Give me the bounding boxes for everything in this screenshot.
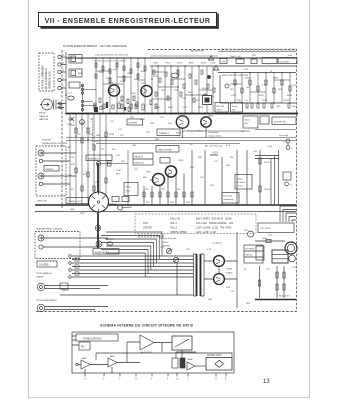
svg-text:PEDA 10: PEDA 10	[135, 156, 144, 159]
svg-text:8R3V: 8R3V	[287, 95, 293, 97]
svg-text:TR03: TR03	[176, 133, 182, 135]
svg-text:KK2P: KK2P	[284, 100, 290, 102]
dashed left border	[61, 50, 63, 208]
svg-text:Décharge: Décharge	[224, 196, 234, 198]
svg-text:P108: P108	[198, 107, 204, 109]
svg-text:TK73: TK73	[210, 63, 216, 65]
dark part above bus	[94, 107, 98, 112]
svg-text:2105: 2105	[167, 98, 172, 100]
svg-text:R84: R84	[128, 207, 133, 209]
wires under TR06	[183, 126, 207, 137]
svg-text:FP3: FP3	[244, 230, 249, 232]
svg-text:PLAY: PLAY	[116, 169, 122, 172]
svg-text:C+: C+	[246, 100, 249, 102]
svg-text:Vers ampli: Vers ampli	[279, 134, 288, 137]
svg-text:L23Y~L23HB (L23) TP0~TP02: L23Y~L23HB (L23) TP0~TP02	[196, 227, 232, 230]
connector circles column	[58, 55, 61, 58]
svg-text:ERA: ERA	[78, 72, 83, 75]
heavy horizontal bus	[66, 113, 298, 115]
svg-text:IP3: IP3	[81, 347, 85, 349]
clavier mecanique dashed box	[39, 53, 54, 91]
addition amp	[140, 335, 154, 350]
svg-text:TIMBRE 2: TIMBRE 2	[159, 133, 170, 135]
parts inside right frame	[225, 84, 229, 88]
svg-text:ADDITION: ADDITION	[141, 351, 152, 354]
svg-text:4: 4	[63, 78, 65, 80]
svg-text:10µF C+ (4): 10µF C+ (4)	[230, 56, 241, 58]
filtre FM 19kHz box	[215, 103, 229, 113]
transistor TR908	[214, 256, 225, 267]
svg-text:56k: 56k	[230, 157, 234, 159]
bus terminal circle	[96, 161, 100, 165]
amp1 wires	[78, 365, 108, 374]
svg-text:+12 V: +12 V	[212, 153, 219, 155]
svg-text:REGL.: REGL.	[163, 242, 169, 244]
enreg aux label box	[93, 249, 119, 255]
svg-text:C37: C37	[146, 132, 151, 134]
small box on head wire	[60, 283, 68, 289]
svg-text:C10 R11 C12 R13 C14 R15 C16: C10 R11 C12 R13 C14 R15 C16 R17	[93, 61, 127, 63]
IP3 box	[79, 342, 90, 350]
svg-text:R77: R77	[266, 269, 271, 271]
svg-text:1k: 1k	[244, 269, 247, 271]
svg-text:R5µ: R5µ	[186, 202, 191, 204]
enreg lect label box	[66, 198, 92, 204]
svg-text:C+0.5: C+0.5	[67, 93, 72, 95]
azimut trimmers	[166, 248, 171, 253]
svg-text:22P: 22P	[145, 189, 149, 191]
regulator table	[272, 250, 288, 263]
svg-text:R44: R44	[132, 145, 137, 147]
dark module block	[203, 96, 212, 105]
svg-text:C302: C302	[79, 123, 85, 125]
casque wires	[43, 238, 108, 247]
svg-text:TR06: TR06	[208, 116, 214, 118]
svg-text:SW: SW	[222, 61, 225, 63]
svg-text:R81: R81	[246, 303, 251, 305]
output terminals O L	[286, 139, 290, 143]
svg-text:836K: 836K	[189, 63, 194, 65]
transistor TR06	[201, 117, 211, 127]
svg-text:425C: 425C	[161, 90, 166, 92]
svg-text:6038: 6038	[141, 71, 146, 73]
effacement wires	[45, 307, 108, 310]
IC outer box	[72, 332, 234, 373]
svg-text:L20Y~L24B (L20): L20Y~L24B (L20)	[196, 231, 216, 234]
svg-text:9: 9	[167, 379, 169, 381]
svg-text:SHL-1: SHL-1	[170, 222, 177, 225]
cap oval	[68, 96, 74, 100]
svg-text:PLATINE PRISE CASQUE: PLATINE PRISE CASQUE	[36, 228, 63, 231]
dashed platine border top/right/bottom	[35, 50, 297, 312]
warning triangle A	[209, 56, 214, 60]
svg-text:DU CLAVIER MECA: DU CLAVIER MECA	[45, 68, 48, 89]
svg-text:R98 9k: R98 9k	[264, 189, 270, 191]
svg-text:STABILISATION: STABILISATION	[83, 337, 101, 340]
junction dots on left bus	[65, 94, 67, 96]
tete lamelle head symbol	[37, 283, 45, 291]
detection wires	[96, 353, 232, 360]
svg-text:R121: R121	[131, 93, 137, 95]
svg-text:6: 6	[187, 379, 189, 381]
mini box beside regul	[160, 158, 170, 164]
meter box	[172, 336, 192, 350]
svg-text:Réglage 6V: Réglage 6V	[279, 296, 290, 298]
svg-text:C115: C115	[119, 101, 125, 103]
mid-left wiring verticals	[69, 114, 71, 206]
svg-text:DETECTION: DETECTION	[207, 354, 222, 357]
svg-text:R318: R318	[109, 134, 115, 136]
svg-text:RWD 479: RWD 479	[105, 239, 113, 241]
svg-text:R33: R33	[150, 123, 155, 125]
svg-text:AV Switch: AV Switch	[237, 181, 246, 184]
svg-text:3: 3	[151, 379, 153, 381]
circuit reglage box	[262, 58, 277, 64]
amp2 wires	[112, 342, 140, 373]
timbre filtre box	[156, 146, 179, 153]
relay ERA-1	[69, 55, 82, 64]
left end part marks on return wires	[75, 258, 79, 261]
resistor ladder top-left	[95, 58, 97, 113]
svg-text:5: 5	[63, 86, 65, 88]
svg-text:PRISES: PRISES	[46, 169, 54, 171]
svg-text:1V02: 1V02	[127, 73, 133, 75]
wire fan bundle	[106, 232, 162, 256]
svg-text:93K0: 93K0	[99, 72, 105, 74]
svg-text:R79: R79	[268, 235, 273, 237]
transistor TR02	[141, 85, 152, 96]
svg-text:02R: 02R	[95, 141, 99, 143]
svg-text:KP14: KP14	[201, 63, 207, 65]
jack mark under commutator	[95, 225, 101, 231]
svg-text:812µ: 812µ	[202, 88, 207, 90]
capstan circle	[289, 255, 296, 262]
svg-text:C53: C53	[134, 169, 139, 171]
svg-text:MOTEUR: MOTEUR	[246, 249, 255, 251]
svg-text:TP0~TP02: TP0~TP02	[260, 228, 271, 230]
motor M	[285, 242, 297, 254]
svg-text:120: 120	[210, 185, 214, 187]
svg-text:PLATINE ENREGISTREMENT - LECTU: PLATINE ENREGISTREMENT - LECTURE COMMAND…	[63, 45, 127, 48]
svg-text:9k/y: 9k/y	[232, 110, 236, 112]
svg-text:297: 297	[146, 202, 150, 204]
label box SERR AUX 1	[86, 155, 112, 161]
svg-text:V7VC: V7VC	[231, 95, 237, 97]
svg-text:12: 12	[84, 379, 87, 381]
svg-text:GAUCHE: GAUCHE	[39, 118, 49, 121]
svg-text:5: 5	[103, 379, 105, 381]
junction dots on heavy bus	[95, 113, 97, 115]
svg-text:C49: C49	[253, 151, 258, 153]
top rail wires	[66, 57, 296, 59]
misc label speckle	[68, 55, 297, 305]
motor table box	[244, 245, 263, 263]
base rail TR03-TR06	[182, 130, 250, 132]
svg-text:SW1: SW1	[70, 209, 75, 211]
svg-text:12C0: 12C0	[106, 78, 112, 80]
svg-text:rotation moteur: rotation moteur	[208, 135, 222, 138]
svg-text:T8KC: T8KC	[153, 63, 159, 65]
svg-text:PLATINE: PLATINE	[42, 139, 51, 142]
svg-text:GRAVE: GRAVE	[36, 275, 44, 278]
svg-text:TC86: TC86	[181, 98, 187, 100]
svg-text:VII - ENSEMBLE ENREGISTREUR-LE: VII - ENSEMBLE ENREGISTREUR-LECTEUR	[45, 18, 211, 25]
box K3	[69, 82, 80, 88]
dashed vertical mid-left	[92, 118, 94, 146]
svg-text:C35: C35	[160, 117, 165, 119]
casque jack	[38, 235, 44, 241]
svg-text:68k: 68k	[143, 177, 147, 179]
long return wires to oscillator	[72, 255, 194, 257]
svg-text:µP9T: µP9T	[195, 100, 201, 102]
svg-text:AMP: AMP	[82, 357, 87, 360]
svg-text:R15: R15	[71, 164, 76, 166]
svg-text:RTC4: RTC4	[165, 63, 171, 65]
title box VII ENSEMBLE	[39, 13, 219, 28]
long horizontals under bus	[66, 138, 296, 144]
svg-text:R61: R61	[230, 89, 235, 91]
svg-text:4.7µ: 4.7µ	[226, 145, 231, 147]
svg-text:TR02: TR02	[141, 83, 147, 85]
svg-text:0.22: 0.22	[207, 249, 212, 251]
svg-text:C60: C60	[288, 55, 293, 57]
prises wires	[43, 153, 76, 184]
left vertical near motor	[259, 266, 261, 298]
svg-text:RP47: RP47	[273, 78, 279, 80]
svg-text:C107 10µ 25V R115 2.2k C1: C107 10µ 25V R115 2.2k C112 0.047	[95, 55, 129, 57]
nested corner wires right	[280, 206, 296, 222]
svg-text:TR908: TR908	[226, 269, 233, 271]
svg-text:99CP: 99CP	[168, 107, 174, 109]
svg-text:CASQUE: CASQUE	[39, 115, 49, 118]
svg-text:PV9T: PV9T	[174, 90, 180, 92]
svg-text:CRB05~CPB02: CRB05~CPB02	[170, 231, 187, 234]
svg-text:ENREG AUX 1: ENREG AUX 1	[95, 251, 110, 254]
svg-text:R50: R50	[241, 131, 246, 133]
svg-text:TPP: TPP	[161, 189, 166, 191]
rail under filtre sec	[255, 129, 296, 131]
svg-text:O: O	[283, 142, 285, 144]
svg-text:C64: C64	[292, 85, 297, 87]
svg-text:REG/OSC: REG/OSC	[135, 163, 145, 165]
label box BUFFER AUX	[127, 119, 143, 125]
svg-text:C78: C78	[292, 267, 297, 269]
svg-text:33k: 33k	[112, 149, 116, 151]
thick vertical bus to heads	[97, 163, 99, 248]
transistor TR01	[108, 85, 119, 96]
bottom pins	[85, 373, 226, 377]
svg-text:Couvert Transistor: Couvert Transistor	[160, 237, 177, 240]
svg-text:rebobinage: rebobinage	[224, 199, 235, 201]
small box beside switch	[260, 116, 269, 124]
svg-text:REC: REC	[116, 174, 121, 176]
svg-text:Neon: Neon	[126, 191, 131, 193]
filtre sec box	[272, 117, 296, 125]
svg-text:C307: C307	[276, 106, 281, 108]
middle top component cluster	[151, 66, 153, 113]
svg-text:R46: R46	[198, 157, 203, 159]
transistor TR909	[214, 274, 225, 285]
svg-text:Regul: Regul	[232, 106, 238, 108]
svg-text:3: 3	[63, 70, 65, 72]
right bottom small parts row	[246, 103, 248, 108]
svg-text:PRISES MICROPHONES: PRISES MICROPHONES	[42, 143, 68, 145]
svg-text:P4µ: P4µ	[170, 202, 175, 204]
left pins	[72, 336, 79, 345]
svg-text:SERR AUX 1: SERR AUX 1	[88, 157, 102, 160]
secondary mid rail	[35, 211, 297, 213]
svg-text:REGUL: REGUL	[246, 255, 254, 257]
svg-text:C55: C55	[200, 177, 205, 179]
effacement head symbol	[37, 304, 45, 312]
svg-text:Filtre FM: Filtre FM	[217, 105, 225, 108]
svg-text:µ501: µ501	[113, 69, 119, 71]
svg-text:TAB GAUCHE: TAB GAUCHE	[190, 50, 205, 53]
svg-text:12: 12	[176, 379, 179, 381]
svg-text:TETE EFFACEMENT: TETE EFFACEMENT	[36, 299, 58, 302]
addition wires	[127, 342, 172, 352]
small box O C	[283, 172, 291, 180]
small terminal circle right of commutator	[118, 205, 123, 210]
svg-text:AVL OR TON rouge: AVL OR TON rouge	[205, 145, 223, 148]
svg-text:TIMB. FILTRE: TIMB. FILTRE	[158, 150, 172, 152]
svg-text:Oscillateur: Oscillateur	[212, 242, 223, 245]
jack 1	[38, 150, 44, 156]
svg-text:C93µ: C93µ	[236, 100, 242, 102]
svg-text:813: 813	[177, 189, 181, 191]
svg-text:MICRO: MICRO	[39, 113, 47, 115]
tick texture on top dashed border	[222, 48, 294, 51]
svg-text:TR05: TR05	[146, 172, 152, 174]
heavy mid rail	[35, 204, 297, 206]
svg-text:13: 13	[263, 379, 270, 385]
svg-text:ASS: ASS	[143, 222, 148, 225]
svg-text:R74: R74	[226, 287, 231, 289]
left end terminals of return wires	[69, 255, 72, 258]
second top rail right	[218, 51, 296, 53]
svg-text:R59: R59	[252, 55, 257, 57]
comb ticks under legend	[139, 235, 163, 238]
svg-text:2: 2	[63, 62, 65, 64]
resistor bank under transistors	[143, 186, 145, 205]
rotary commutator circle	[89, 192, 109, 212]
head wires	[45, 286, 108, 289]
svg-text:V328: V328	[153, 76, 159, 78]
micro casque jack	[42, 99, 53, 110]
transistor TR05	[153, 174, 165, 186]
svg-text:1: 1	[63, 55, 65, 57]
svg-text:15T: 15T	[77, 134, 81, 136]
svg-text:R301: R301	[68, 119, 74, 121]
right frame wire	[220, 75, 296, 103]
svg-text:TR04: TR04	[178, 160, 184, 162]
svg-text:B20Y~(REF) R20~R276 2E30k: B20Y~(REF) R20~R276 2E30k	[196, 218, 233, 221]
svg-text:ERA: ERA	[78, 57, 83, 60]
svg-text:AMP: AMP	[188, 358, 193, 361]
svg-text:VERS CDE: VERS CDE	[37, 201, 47, 203]
svg-text:K631: K631	[245, 78, 251, 80]
heavy bottom-right bus	[255, 299, 296, 301]
svg-text:CASQUE: CASQUE	[39, 264, 49, 267]
transformer T901	[196, 254, 198, 296]
svg-text:8: 8	[225, 379, 227, 381]
svg-text:VERROUILLAGE: VERROUILLAGE	[49, 71, 52, 89]
svg-text:Pleura: Pleura	[126, 187, 133, 189]
svg-text:R30: R30	[292, 106, 295, 108]
prises dashed box	[36, 146, 66, 196]
casque label box	[37, 261, 57, 267]
svg-text:0.01: 0.01	[268, 146, 273, 148]
right bottom RC pairs	[277, 266, 284, 298]
svg-text:0.047: 0.047	[140, 119, 146, 121]
coupling parts between TR01/TR02	[121, 96, 123, 101]
coupling cluster	[172, 358, 178, 368]
prises label box	[44, 166, 59, 172]
svg-text:TR01: TR01	[108, 83, 114, 85]
svg-text:C80: C80	[208, 299, 213, 301]
svg-text:Switch: Switch	[245, 119, 251, 122]
svg-text:AV: AV	[68, 146, 71, 149]
svg-text:4.7k: 4.7k	[118, 129, 123, 131]
svg-text:220: 220	[120, 135, 124, 137]
left bus wire	[65, 52, 67, 113]
svg-text:Grand Rég: Grand Rég	[279, 61, 289, 63]
svg-text:C: C	[290, 185, 292, 187]
svg-text:VV16: VV16	[120, 81, 126, 83]
svg-text:FILTRE SEC: FILTRE SEC	[274, 121, 287, 123]
casque dashed box	[35, 232, 80, 259]
svg-text:SW-1n: SW-1n	[237, 179, 243, 181]
svg-text:C58: C58	[244, 69, 249, 71]
relay ERA-2	[69, 69, 82, 77]
svg-text:R92 1k: R92 1k	[264, 162, 270, 164]
svg-text:T117: T117	[183, 107, 188, 109]
right resistors R92/R98	[259, 158, 261, 164]
svg-text:Commande: Commande	[208, 132, 219, 134]
svg-text:R54: R54	[190, 167, 195, 169]
svg-text:4618: 4618	[188, 92, 193, 94]
svg-text:2.2k: 2.2k	[70, 157, 75, 159]
wiring legend text	[143, 218, 234, 235]
reject 19kHz box	[231, 103, 243, 113]
enreg aux terminal circle	[96, 241, 102, 247]
TP legend box	[258, 223, 294, 233]
svg-text:L: L	[292, 148, 294, 150]
svg-text:BUFFER: BUFFER	[129, 123, 138, 125]
svg-text:TR909: TR909	[226, 273, 233, 275]
switch AB box	[243, 116, 258, 128]
svg-text:PLATINE COMMANDE: PLATINE COMMANDE	[42, 65, 45, 89]
transistor TR04	[165, 166, 176, 177]
svg-text:C47: C47	[214, 161, 219, 163]
stacked component near terminal	[108, 161, 112, 164]
svg-text:R48: R48	[226, 165, 231, 167]
regul osc box	[133, 153, 153, 165]
svg-text:4366: 4366	[259, 95, 264, 97]
decharge box	[222, 193, 239, 204]
svg-text:0TKK: 0TKK	[262, 100, 268, 102]
svg-text:GRISTE: GRISTE	[143, 227, 152, 230]
wiring legend dashed box	[135, 214, 256, 234]
svg-text:TWL-1: TWL-1	[170, 227, 178, 230]
svg-text:AMP: AMP	[110, 355, 115, 358]
svg-text:SCHEMA INTERNE DU CIRCUIT INTE: SCHEMA INTERNE DU CIRCUIT INTEGRE NE 845…	[100, 324, 193, 328]
svg-text:C305: C305	[67, 124, 73, 126]
svg-text:60K0: 60K0	[134, 79, 140, 81]
svg-text:GAC(-)-B: GAC(-)-B	[170, 218, 180, 221]
svg-text:TETE LAMELLE: TETE LAMELLE	[36, 272, 53, 275]
label box TIMBRE 2	[157, 129, 180, 136]
